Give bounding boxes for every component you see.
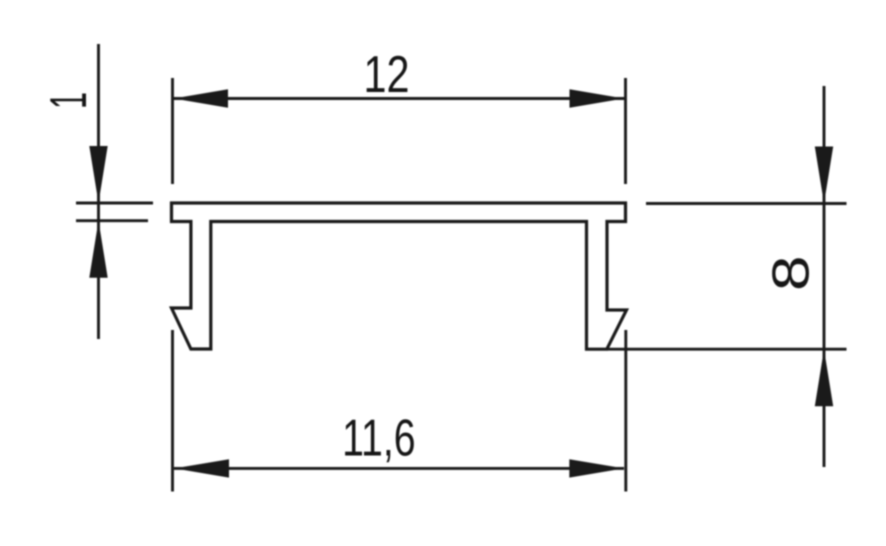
- svg-text:11,6: 11,6: [342, 410, 416, 468]
- dim 1 extension line upper: [76, 202, 153, 205]
- dim 11,6 arrowhead right: [569, 459, 624, 477]
- dim 8 extension line lower: [607, 348, 847, 351]
- dim 11,6 extension line left: [171, 330, 174, 492]
- dim 12 extension line left: [171, 78, 174, 184]
- svg-text:1: 1: [40, 92, 98, 109]
- dim 1 arrowhead up: [89, 221, 107, 278]
- dim 8 dimension line: [823, 86, 826, 467]
- dim 12 arrowhead right: [570, 89, 625, 107]
- dim 12 dimension line: [173, 97, 625, 100]
- dim 11,6 extension line right: [624, 330, 627, 492]
- dim 12 extension line right: [624, 78, 627, 184]
- dim 11,6 dimension line: [174, 467, 624, 470]
- dim 1 extension line lower: [76, 219, 148, 222]
- dim 1 arrowhead down: [89, 146, 107, 203]
- svg-text:12: 12: [364, 46, 410, 104]
- dim 8 arrowhead down: [815, 147, 833, 204]
- dim 1 dimension line: [97, 44, 100, 339]
- dim 8 extension line upper: [646, 202, 847, 205]
- dim 11,6 arrowhead left: [174, 459, 229, 477]
- profile outline: [172, 203, 627, 349]
- dim 8 arrowhead up: [815, 349, 833, 406]
- svg-text:8: 8: [763, 256, 821, 292]
- dim 12 arrowhead left: [174, 89, 229, 107]
